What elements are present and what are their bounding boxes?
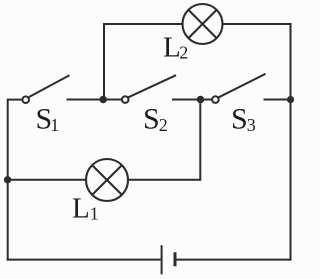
wire: S2 fixed contact to node B — [172, 99, 201, 101]
switch S1 blade — [29, 75, 70, 97]
wire: node C to lamp L1 — [8, 179, 87, 181]
battery positive plate (long) — [161, 245, 163, 274]
node C: junction of L1 branch with left rail — [4, 176, 11, 183]
wire: lamp L1 to mid vertical — [128, 179, 201, 181]
switch S2 blade — [128, 75, 176, 97]
wire: mid vertical from node B down to L1 branch — [199, 100, 201, 181]
switch S1 pivot circle — [22, 96, 29, 103]
node B: junction of L1 branch with switch row — [197, 96, 205, 104]
wire: node A to switch S2 pivot — [103, 99, 121, 101]
lamp L2 — [183, 4, 223, 44]
switch S2 pivot circle — [122, 96, 129, 103]
wire: S1 fixed contact to node A — [67, 99, 104, 101]
wire: bottom rail right segment from battery — [176, 259, 291, 261]
lamp L1 — [86, 159, 128, 201]
switch S3 pivot circle — [212, 96, 219, 103]
switch S3 blade — [219, 74, 266, 98]
wire: S3 fixed contact to right rail — [264, 99, 291, 101]
wire: right vertical rail — [290, 23, 292, 261]
node D: junction of S3 wire with right rail — [287, 96, 294, 103]
wire: top rail left segment to lamp L2 — [103, 23, 183, 25]
wire: top-left vertical from top rail down to node A — [103, 24, 105, 100]
svg-text:S3: S3 — [231, 103, 256, 136]
wire: node B to switch S3 pivot — [200, 99, 212, 101]
svg-text:S1: S1 — [36, 103, 60, 136]
wire: left stub to switch S1 pivot — [8, 99, 23, 101]
node A: junction of L2 branch with switch row — [99, 96, 107, 104]
svg-text:S2: S2 — [143, 103, 168, 136]
wire: left vertical rail — [7, 99, 9, 261]
wire: top rail right segment from lamp L2 to right rail — [223, 23, 292, 25]
svg-text:L2: L2 — [163, 31, 188, 63]
battery negative plate (short) — [174, 252, 177, 266]
wire: bottom rail left segment to battery — [7, 259, 161, 261]
